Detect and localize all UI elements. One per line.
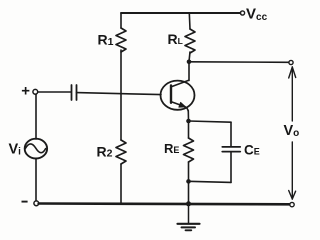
svg-text:R2: R2 <box>97 143 113 159</box>
wire R2 bottom lead <box>120 164 122 204</box>
wire RL bottom lead <box>189 52 190 62</box>
svg-text:Vo: Vo <box>284 123 300 139</box>
wire RL top lead <box>188 13 191 29</box>
wire CE top lead <box>230 122 232 146</box>
svg-text:Vi: Vi <box>9 142 22 158</box>
terminal Vo top <box>289 60 293 64</box>
terminal Vcc <box>240 11 244 15</box>
svg-text:R1: R1 <box>98 32 114 49</box>
resistor R2 <box>116 140 126 164</box>
transistor Q1 <box>161 80 195 111</box>
wire RE node to CE bottom <box>189 181 232 182</box>
label minus input <box>22 201 28 203</box>
terminal input plus <box>33 89 38 94</box>
wire capacitor to transistor base <box>77 93 162 95</box>
wire bottom ground rail <box>39 202 289 205</box>
wire top Vcc rail <box>121 12 241 14</box>
wire emitter node to CE <box>189 121 232 122</box>
wire R1 to base node <box>120 50 122 94</box>
svg-text:RL: RL <box>168 31 183 47</box>
wire Vi bottom lead <box>35 158 37 201</box>
wire emitter <box>187 111 189 121</box>
svg-text:+: + <box>21 82 30 99</box>
wire RE bottom lead <box>188 162 190 181</box>
svg-text:RE: RE <box>164 141 179 156</box>
arrow Vo down <box>289 142 296 199</box>
wire collector to output terminal <box>189 61 289 64</box>
node ground junction <box>186 201 191 206</box>
resistor R1 <box>116 28 126 52</box>
wire CE bottom lead <box>230 152 232 183</box>
node emitter <box>186 119 191 124</box>
wire RE top lead <box>188 121 190 138</box>
capacitor C coupling <box>72 85 77 100</box>
svg-text:CE: CE <box>244 142 260 157</box>
wire base node to R2 <box>120 94 122 140</box>
node RE bottom <box>186 179 191 184</box>
arrow Vo up <box>289 67 296 121</box>
wire input terminal to capacitor <box>38 91 71 93</box>
resistor RE <box>184 138 194 162</box>
wire Vi top lead <box>35 94 37 139</box>
resistor RL <box>185 29 195 53</box>
wire R1 top lead <box>120 13 122 28</box>
terminal Vo bottom <box>290 202 294 206</box>
capacitor CE <box>222 147 240 152</box>
terminal input minus <box>34 201 39 206</box>
source Vi <box>25 139 47 159</box>
node collector <box>187 60 192 65</box>
wire RE node to ground rail <box>188 181 190 204</box>
ground <box>178 204 200 231</box>
wire collector <box>188 62 190 81</box>
svg-text:Vcc: Vcc <box>246 6 268 23</box>
